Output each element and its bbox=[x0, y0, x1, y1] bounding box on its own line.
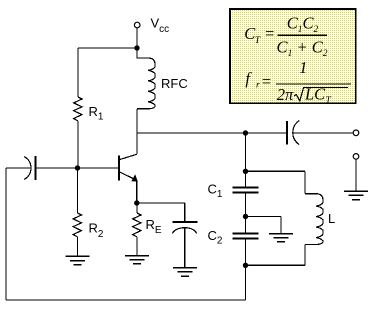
wire output right bbox=[293, 132, 353, 134]
svg-text:C1 + C2: C1 + C2 bbox=[277, 38, 328, 59]
capacitor input coupling straight plate bbox=[35, 156, 37, 180]
ground bypass bbox=[173, 268, 197, 276]
svg-text:R1: R1 bbox=[89, 104, 104, 123]
Vcc terminal bbox=[134, 22, 140, 28]
svg-text:C1: C1 bbox=[208, 182, 223, 201]
wire input left bbox=[6, 167, 31, 169]
capacitor bypass straight plate bbox=[173, 221, 198, 223]
wire collector vertical bbox=[136, 109, 138, 154]
svg-text:Vcc: Vcc bbox=[151, 16, 170, 36]
node base junction bbox=[75, 165, 80, 170]
node tank top bbox=[243, 169, 248, 174]
svg-text:C2: C2 bbox=[208, 228, 223, 247]
wire R2 ground stem bbox=[77, 237, 79, 256]
resistor RE bbox=[133, 213, 141, 237]
wire L bottom lead bbox=[246, 245, 305, 266]
svg-text:R2: R2 bbox=[89, 221, 104, 241]
node collector tap bbox=[243, 130, 248, 135]
ground RE bbox=[125, 256, 149, 264]
svg-text:L: L bbox=[328, 211, 335, 226]
capacitor output coupling straight plate bbox=[286, 121, 288, 145]
transistor Q1 bbox=[119, 154, 138, 181]
wire collector tap to tank bbox=[137, 132, 287, 134]
node Vcc junction bbox=[134, 45, 139, 50]
svg-text:=: = bbox=[261, 72, 272, 91]
wire tank vertical middle bbox=[245, 193, 247, 234]
svg-text:r: r bbox=[256, 80, 260, 90]
wire midpoint ground tap bbox=[246, 217, 282, 234]
formula fr equation bbox=[245, 58, 351, 106]
svg-text:1: 1 bbox=[299, 58, 307, 77]
inductor RFC bbox=[137, 48, 155, 109]
wire Vcc stem bbox=[136, 28, 138, 48]
wire RE ground stem bbox=[136, 237, 138, 256]
resistor R1 bbox=[74, 97, 82, 121]
wire RE lead bbox=[136, 203, 138, 213]
wire tank vertical upper bbox=[245, 133, 247, 188]
svg-text:T: T bbox=[255, 36, 261, 46]
formula CT equation bbox=[244, 14, 327, 60]
terminal output 2 bbox=[353, 154, 359, 160]
ground R2 bbox=[66, 256, 90, 264]
wire R1 top lead bbox=[77, 48, 79, 97]
wire base bbox=[36, 167, 120, 169]
wire R2 lead bbox=[77, 168, 79, 213]
ground output bbox=[344, 191, 368, 200]
ground midpoint bbox=[269, 234, 293, 242]
svg-text:2π: 2π bbox=[277, 85, 294, 104]
capacitor input coupling (curved plate) bbox=[24, 157, 31, 180]
capacitor output coupling curved plate bbox=[293, 121, 300, 145]
wire L top lead bbox=[246, 171, 305, 193]
svg-text:T: T bbox=[326, 96, 332, 106]
wire emitter to bypass cap bbox=[137, 203, 185, 222]
wire emitter vertical bbox=[136, 180, 138, 203]
svg-text:RFC: RFC bbox=[161, 76, 188, 91]
svg-text:=: = bbox=[264, 24, 275, 43]
capacitor C2 bbox=[232, 234, 258, 239]
node tank bottom bbox=[243, 263, 248, 268]
wire top horizontal bbox=[78, 47, 137, 49]
wire tank vertical lower bbox=[245, 239, 247, 301]
wire terminal2 ground stem bbox=[355, 159, 357, 191]
inductor L bbox=[305, 194, 323, 245]
node emitter junction bbox=[134, 200, 139, 205]
wire left vertical feedback bbox=[5, 168, 7, 300]
node C1 C2 midpoint bbox=[243, 214, 248, 219]
wire bottom feedback bbox=[6, 299, 246, 301]
formula box bbox=[230, 9, 356, 103]
resistor R2 bbox=[73, 213, 81, 237]
capacitor bypass curved plate bbox=[172, 228, 197, 234]
capacitor C1 bbox=[232, 188, 258, 193]
wire R1 bottom lead bbox=[77, 121, 79, 168]
terminal output 1 bbox=[353, 130, 359, 136]
svg-text:LC: LC bbox=[304, 85, 326, 104]
svg-text:RE: RE bbox=[146, 217, 162, 236]
wire bypass ground stem bbox=[184, 228, 186, 267]
